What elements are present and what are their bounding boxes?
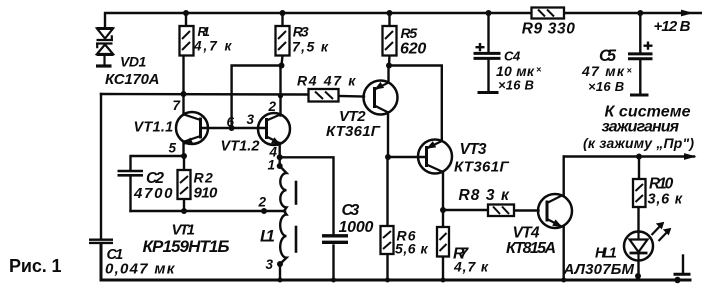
- svg-text:1: 1: [268, 158, 276, 173]
- svg-text:КТ815А: КТ815А: [506, 240, 556, 257]
- svg-text:VT1.1: VT1.1: [134, 120, 174, 136]
- svg-text:4700: 4700: [133, 185, 173, 202]
- svg-text:C3: C3: [342, 202, 360, 219]
- svg-text:R9 330: R9 330: [522, 21, 576, 38]
- svg-text:HL1: HL1: [595, 246, 617, 262]
- svg-text:КТ361Г: КТ361Г: [454, 159, 509, 176]
- svg-text:2: 2: [268, 99, 277, 114]
- svg-text:VT4: VT4: [513, 225, 540, 242]
- svg-text:R10: R10: [649, 176, 674, 193]
- svg-text:5: 5: [169, 141, 177, 156]
- svg-text:АЛ307БМ: АЛ307БМ: [563, 261, 635, 278]
- svg-text:2: 2: [258, 195, 267, 210]
- svg-text:зажигания: зажигания: [602, 119, 680, 136]
- svg-text:Рис. 1: Рис. 1: [9, 256, 62, 276]
- svg-text:3,6 к: 3,6 к: [648, 192, 683, 208]
- svg-text:R2: R2: [194, 170, 214, 186]
- svg-text:R8 3 к: R8 3 к: [459, 187, 511, 204]
- svg-text:620: 620: [400, 41, 426, 58]
- svg-text:0,047 мк: 0,047 мк: [105, 261, 176, 278]
- svg-text:L1: L1: [260, 227, 275, 246]
- svg-text:VT3: VT3: [460, 141, 487, 158]
- svg-text:R5: R5: [401, 25, 418, 41]
- svg-text:КР159НТ1Б: КР159НТ1Б: [143, 237, 230, 256]
- svg-text:7: 7: [173, 98, 182, 113]
- svg-text:×16 В: ×16 В: [588, 79, 624, 94]
- svg-text:5,6 к: 5,6 к: [395, 241, 428, 257]
- svg-text:4,7 к: 4,7 к: [193, 39, 233, 54]
- svg-text:3: 3: [247, 112, 255, 127]
- svg-text:R3: R3: [293, 24, 309, 40]
- svg-text:910: 910: [194, 185, 218, 202]
- svg-text:×: ×: [627, 66, 633, 76]
- svg-text:+12 В: +12 В: [654, 18, 691, 35]
- svg-text:47 мк: 47 мк: [581, 63, 625, 79]
- svg-text:КТ361Г: КТ361Г: [326, 123, 381, 140]
- svg-text:3: 3: [266, 257, 274, 272]
- svg-text:C4: C4: [504, 49, 521, 64]
- svg-text:VT1: VT1: [172, 222, 196, 239]
- svg-text:4,7 к: 4,7 к: [453, 259, 489, 275]
- svg-text:VD1: VD1: [120, 54, 147, 70]
- svg-text:6: 6: [227, 115, 235, 130]
- svg-text:VT1.2: VT1.2: [221, 139, 260, 155]
- svg-text:R4 47 к: R4 47 к: [297, 73, 356, 89]
- svg-text:1000: 1000: [339, 219, 374, 236]
- svg-text:×: ×: [536, 65, 542, 75]
- svg-text:КС170А: КС170А: [105, 71, 160, 88]
- svg-text:7,5 к: 7,5 к: [292, 39, 329, 55]
- svg-text:(к зажиму „Пр"): (к зажиму „Пр"): [583, 135, 694, 151]
- svg-text:R1: R1: [198, 24, 210, 39]
- svg-text:×16 В: ×16 В: [498, 78, 534, 93]
